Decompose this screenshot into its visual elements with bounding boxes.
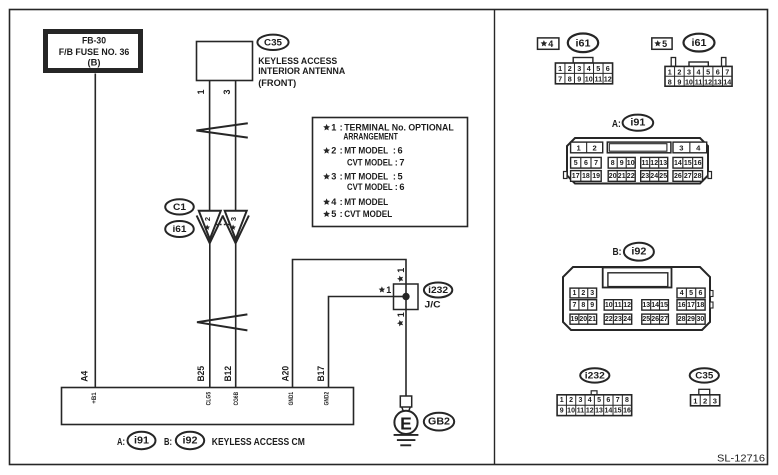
svg-text:4: 4	[587, 64, 591, 73]
svg-text:11: 11	[577, 407, 585, 414]
svg-text:i61: i61	[576, 37, 591, 49]
svg-text:12: 12	[704, 77, 712, 86]
svg-text:CLG5: CLG5	[206, 392, 213, 406]
svg-text:5: 5	[706, 67, 710, 76]
svg-text:1: 1	[668, 67, 672, 76]
svg-text:7: 7	[616, 397, 620, 404]
svg-text:12: 12	[586, 407, 594, 414]
svg-text:6: 6	[698, 290, 702, 297]
svg-text:9: 9	[620, 160, 624, 167]
svg-text:4: 4	[548, 39, 553, 49]
svg-text:20: 20	[579, 316, 587, 323]
svg-text:13: 13	[642, 302, 650, 309]
svg-text:1: 1	[331, 122, 336, 132]
svg-text:18: 18	[582, 173, 590, 180]
svg-text:B12: B12	[223, 366, 233, 382]
svg-text:15: 15	[660, 302, 668, 309]
svg-text:21: 21	[618, 173, 626, 180]
svg-text::: :	[340, 122, 343, 132]
svg-text:2: 2	[677, 67, 681, 76]
svg-text:9: 9	[590, 302, 594, 309]
svg-text:5: 5	[398, 172, 403, 182]
svg-text:3: 3	[590, 290, 594, 297]
svg-text:B25: B25	[196, 366, 206, 382]
svg-text:CVT MODEL: CVT MODEL	[347, 158, 393, 168]
svg-text:B17: B17	[316, 366, 326, 382]
svg-text::: :	[395, 158, 398, 168]
svg-text:2: 2	[703, 396, 707, 405]
svg-text:5: 5	[331, 209, 336, 219]
svg-text:6: 6	[716, 67, 720, 76]
svg-text:14: 14	[674, 160, 682, 167]
svg-text:CVT MODEL: CVT MODEL	[344, 209, 392, 219]
svg-text:E: E	[400, 413, 412, 433]
svg-text:MT MODEL: MT MODEL	[344, 197, 388, 207]
svg-text:4: 4	[588, 397, 592, 404]
svg-text:i91: i91	[630, 118, 645, 129]
svg-text:27: 27	[660, 316, 668, 323]
svg-text:5: 5	[574, 160, 578, 167]
svg-text:MT MODEL: MT MODEL	[344, 146, 388, 156]
svg-text:19: 19	[592, 173, 600, 180]
svg-text:10: 10	[685, 77, 693, 86]
svg-text:4: 4	[331, 197, 337, 207]
svg-text:i232: i232	[585, 370, 605, 381]
svg-text:15: 15	[614, 407, 622, 414]
svg-text:12: 12	[650, 160, 658, 167]
svg-text:C35: C35	[264, 37, 283, 48]
svg-text:18: 18	[697, 302, 705, 309]
svg-text:25: 25	[659, 173, 667, 180]
svg-text:C1: C1	[173, 202, 187, 213]
svg-text:25: 25	[642, 316, 650, 323]
svg-text:GND2: GND2	[324, 392, 331, 406]
svg-text:6: 6	[606, 397, 610, 404]
svg-text:26: 26	[674, 173, 682, 180]
svg-text:1: 1	[396, 312, 406, 317]
svg-text:1: 1	[572, 290, 576, 297]
svg-text:21: 21	[588, 316, 596, 323]
svg-text:5: 5	[689, 290, 693, 297]
svg-text:9: 9	[577, 75, 581, 84]
svg-text:SL-12716: SL-12716	[717, 453, 765, 465]
svg-text:2: 2	[581, 290, 585, 297]
svg-text:A:: A:	[117, 436, 125, 448]
svg-text:3: 3	[577, 64, 581, 73]
svg-text:+B1: +B1	[91, 392, 98, 404]
svg-text:3: 3	[331, 172, 336, 182]
svg-text:17: 17	[687, 302, 695, 309]
svg-text:2: 2	[593, 143, 597, 152]
svg-text:B:: B:	[164, 436, 172, 448]
svg-text:5: 5	[662, 39, 667, 49]
svg-text:2: 2	[203, 217, 212, 221]
svg-text:15: 15	[684, 160, 692, 167]
svg-text:28: 28	[694, 173, 702, 180]
svg-text:A:: A:	[612, 119, 621, 130]
svg-text:12: 12	[623, 302, 631, 309]
svg-text:i232: i232	[428, 285, 448, 296]
svg-text:24: 24	[650, 173, 658, 180]
svg-text:7: 7	[558, 75, 562, 84]
svg-text:8: 8	[611, 160, 615, 167]
svg-text:GND1: GND1	[288, 392, 295, 406]
svg-text:29: 29	[687, 316, 695, 323]
svg-text:26: 26	[651, 316, 659, 323]
svg-text:2: 2	[569, 397, 573, 404]
svg-text:10: 10	[627, 160, 635, 167]
svg-text:4: 4	[697, 67, 701, 76]
svg-text:12: 12	[604, 75, 612, 84]
svg-text:3: 3	[222, 89, 232, 94]
svg-text:F/B FUSE NO. 36: F/B FUSE NO. 36	[59, 47, 130, 57]
svg-text:20: 20	[609, 173, 617, 180]
svg-text:8: 8	[668, 77, 672, 86]
svg-text:4: 4	[680, 290, 684, 297]
svg-text:1: 1	[560, 397, 564, 404]
svg-text:22: 22	[605, 316, 613, 323]
svg-text:27: 27	[684, 173, 692, 180]
svg-text:11: 11	[641, 160, 649, 167]
svg-text:30: 30	[697, 316, 705, 323]
svg-text:(B): (B)	[88, 58, 101, 68]
svg-text:i91: i91	[134, 436, 149, 447]
svg-text:FB-30: FB-30	[82, 36, 106, 46]
svg-text::: :	[393, 146, 396, 156]
svg-text:ARRANGEMENT: ARRANGEMENT	[343, 132, 398, 142]
svg-text:13: 13	[714, 77, 722, 86]
svg-text:1: 1	[396, 268, 406, 273]
svg-text:8: 8	[568, 75, 572, 84]
svg-text:5: 5	[597, 397, 601, 404]
svg-text:GB2: GB2	[428, 417, 450, 428]
svg-text:11: 11	[594, 75, 602, 84]
svg-text:11: 11	[614, 302, 622, 309]
svg-text:i92: i92	[631, 247, 646, 258]
svg-text:J/C: J/C	[425, 300, 441, 311]
svg-text:9: 9	[677, 77, 681, 86]
svg-text:6: 6	[606, 64, 610, 73]
svg-text:10: 10	[567, 407, 575, 414]
svg-text:7: 7	[572, 302, 576, 309]
svg-text:6: 6	[399, 182, 404, 192]
svg-text::: :	[340, 146, 343, 156]
svg-text:19: 19	[571, 316, 579, 323]
svg-text:24: 24	[623, 316, 631, 323]
svg-text:11: 11	[695, 77, 703, 86]
svg-text:10: 10	[585, 75, 593, 84]
svg-text:3: 3	[229, 217, 238, 221]
svg-text:MT MODEL: MT MODEL	[344, 172, 388, 182]
svg-text::: :	[340, 209, 343, 219]
svg-text:16: 16	[678, 302, 686, 309]
svg-text:16: 16	[623, 407, 631, 414]
svg-text:14: 14	[723, 77, 731, 86]
svg-text:13: 13	[595, 407, 603, 414]
svg-text:14: 14	[651, 302, 659, 309]
svg-text:INTERIOR ANTENNA: INTERIOR ANTENNA	[258, 66, 345, 77]
svg-text:A20: A20	[281, 366, 291, 382]
svg-text:1: 1	[558, 64, 562, 73]
svg-text:17: 17	[572, 173, 580, 180]
svg-text:1: 1	[386, 285, 391, 295]
svg-text:3: 3	[713, 396, 717, 405]
svg-text::: :	[393, 172, 396, 182]
svg-text:23: 23	[641, 173, 649, 180]
svg-text:i92: i92	[183, 436, 198, 447]
svg-text:28: 28	[678, 316, 686, 323]
svg-text:9: 9	[560, 407, 564, 414]
svg-text:B:: B:	[613, 247, 622, 258]
svg-text:3: 3	[687, 67, 691, 76]
svg-text:8: 8	[581, 302, 585, 309]
svg-text::: :	[395, 182, 398, 192]
svg-text::: :	[340, 172, 343, 182]
svg-text::: :	[340, 197, 343, 207]
svg-text:1: 1	[196, 89, 206, 94]
svg-text:3: 3	[679, 143, 683, 152]
svg-text:3: 3	[578, 397, 582, 404]
svg-text:8: 8	[625, 397, 629, 404]
svg-text:(FRONT): (FRONT)	[258, 78, 296, 89]
svg-text:16: 16	[694, 160, 702, 167]
svg-text:13: 13	[659, 160, 667, 167]
svg-text:6: 6	[398, 146, 403, 156]
svg-text:6: 6	[584, 160, 588, 167]
svg-text:CG6B: CG6B	[233, 392, 240, 406]
svg-text:i61: i61	[173, 224, 188, 235]
svg-text:10: 10	[605, 302, 613, 309]
svg-text:2: 2	[331, 146, 336, 156]
svg-text:7: 7	[725, 67, 729, 76]
svg-text:5: 5	[596, 64, 600, 73]
svg-text:CVT MODEL: CVT MODEL	[347, 182, 393, 192]
svg-text:22: 22	[627, 173, 635, 180]
svg-text:2: 2	[568, 64, 572, 73]
svg-text:KEYLESS ACCESS CM: KEYLESS ACCESS CM	[212, 436, 305, 448]
svg-text:14: 14	[604, 407, 612, 414]
svg-text:C35: C35	[695, 370, 714, 381]
svg-text:7: 7	[399, 158, 404, 168]
svg-text:23: 23	[614, 316, 622, 323]
svg-text:i61: i61	[692, 37, 707, 49]
svg-text:A4: A4	[80, 371, 90, 382]
svg-text:7: 7	[594, 160, 598, 167]
